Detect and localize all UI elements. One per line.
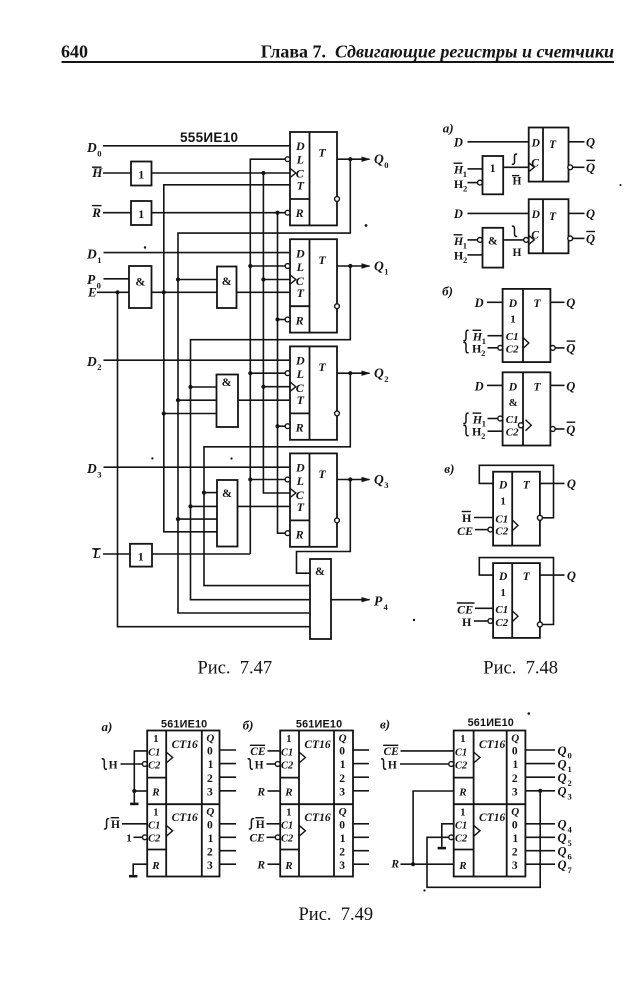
wire Q output (V2) bbox=[540, 574, 565, 576]
svg-text:Q: Q bbox=[566, 379, 575, 393]
svg-text:Рис. 7.49: Рис. 7.49 bbox=[299, 905, 374, 925]
svg-text:C1: C1 bbox=[455, 747, 467, 758]
svg-text:D: D bbox=[295, 139, 305, 153]
svg-text:Q: Q bbox=[339, 806, 347, 818]
svg-text:CT16: CT16 bbox=[479, 812, 505, 824]
svg-text:3: 3 bbox=[339, 786, 345, 798]
wire output Q2 (в) bbox=[525, 776, 555, 778]
svg-text:0: 0 bbox=[339, 819, 345, 831]
AND gate U1 (P0·E) bbox=[129, 266, 152, 308]
wire Q0 bus to U4 input bbox=[178, 518, 217, 520]
svg-text:1: 1 bbox=[482, 419, 486, 429]
pin label E bbox=[87, 284, 97, 299]
pin label CE (V1) bbox=[457, 524, 473, 538]
svg-text:1: 1 bbox=[500, 587, 506, 599]
wire output stub Q6 (а) bbox=[220, 850, 237, 852]
inverter gate 1 (clock) bbox=[131, 162, 152, 186]
svg-text:T: T bbox=[318, 253, 326, 267]
V CT16 label 2 bbox=[479, 812, 505, 824]
svg-text:C2: C2 bbox=[455, 760, 468, 771]
svg-text:а): а) bbox=[443, 120, 454, 135]
svg-text:D: D bbox=[86, 461, 97, 476]
wire Q̄ output (B1) bbox=[555, 347, 564, 349]
svg-text:D: D bbox=[453, 136, 463, 150]
B dynamic wedge 1 bbox=[299, 752, 305, 763]
svg-text:2: 2 bbox=[463, 255, 467, 265]
svg-text:а): а) bbox=[102, 719, 113, 734]
falling edge mark + label H (в1) bbox=[381, 759, 397, 771]
A dynamic wedge 2 bbox=[166, 825, 172, 836]
DD1 pin labels D L C T R, section T bbox=[295, 139, 327, 220]
svg-text:CE: CE bbox=[384, 746, 400, 758]
svg-text:5: 5 bbox=[568, 838, 572, 848]
svg-text:C1: C1 bbox=[506, 414, 519, 426]
wire D1 to DD2 pin D bbox=[104, 252, 291, 254]
svg-text:0: 0 bbox=[512, 819, 518, 831]
wire U4 output to DD4 pin T bbox=[238, 505, 291, 507]
DD3 R input bubble bbox=[285, 424, 290, 429]
svg-text:C: C bbox=[531, 229, 539, 241]
svg-text:Q: Q bbox=[566, 423, 575, 437]
wire H̄ to inverter input bbox=[103, 172, 131, 174]
wire R bus branch to DD3 bbox=[278, 425, 286, 427]
svg-text:6: 6 bbox=[568, 851, 572, 861]
pin label Q̄ (A2) bbox=[586, 232, 595, 247]
wire Q3 feedback to U5 bbox=[297, 480, 351, 574]
wire Q3 output with arrow bbox=[337, 477, 371, 482]
pin label D (B2) bbox=[474, 379, 484, 393]
wire Q output (A1) bbox=[569, 141, 585, 143]
svg-text:0: 0 bbox=[512, 746, 518, 758]
svg-text:C2: C2 bbox=[148, 760, 161, 771]
wire P0 to AND gate 1 input bbox=[104, 278, 130, 280]
svg-text:1: 1 bbox=[460, 808, 465, 819]
wire Q output (A2) bbox=[569, 212, 585, 214]
svg-text:2: 2 bbox=[97, 362, 101, 372]
wire H̄ to C1 (б2) bbox=[267, 823, 281, 825]
svg-text:C2: C2 bbox=[506, 427, 519, 439]
wire output stub Q4 (а) bbox=[220, 823, 237, 825]
svg-text:CE: CE bbox=[457, 524, 473, 538]
svg-text:D: D bbox=[508, 298, 518, 310]
svg-text:C1: C1 bbox=[495, 513, 508, 525]
node: Q0 output junction bbox=[348, 157, 352, 161]
wire output stub Q5 (а) bbox=[220, 836, 237, 838]
pin label C̄E (б1) bbox=[250, 745, 266, 758]
C2 input bubble (в1) bbox=[449, 762, 454, 767]
V left column labels section 2 bbox=[455, 808, 468, 872]
logic-0 bar (а1) bbox=[130, 803, 138, 806]
svg-text:R: R bbox=[458, 860, 466, 872]
wire V2 feedback Q̄ to D bbox=[479, 558, 553, 625]
svg-text:Q: Q bbox=[586, 161, 595, 175]
svg-text:CT16: CT16 bbox=[172, 739, 198, 751]
A CT16 label 1 bbox=[172, 739, 198, 751]
pin label H̄1 (A1) bbox=[453, 162, 467, 178]
svg-text:D: D bbox=[295, 246, 305, 260]
gate input bubble (A1 H2) bbox=[478, 180, 483, 185]
svg-text:CT16: CT16 bbox=[304, 739, 330, 751]
C2 input bubble (б1) bbox=[275, 762, 280, 767]
pin label Q1 (в) bbox=[558, 757, 572, 774]
B left column labels section 2 bbox=[281, 808, 294, 872]
header rule bbox=[62, 61, 615, 63]
DD3 L input bubble bbox=[285, 371, 290, 376]
wire R̄ to inverter input bbox=[103, 212, 131, 214]
svg-text:T: T bbox=[297, 179, 305, 193]
rising edge mark (B1) bbox=[463, 330, 468, 340]
FF A2 C input bubble bbox=[524, 238, 529, 243]
wire U1 output (P line) bbox=[152, 291, 218, 293]
node: Q0 bus junction at U2 bbox=[176, 277, 180, 281]
svg-text:L: L bbox=[296, 474, 304, 488]
svg-text:D: D bbox=[474, 379, 484, 393]
svg-text:Q: Q bbox=[511, 732, 519, 744]
svg-text:Q: Q bbox=[558, 785, 567, 799]
pin label H2 (A2) bbox=[454, 249, 467, 265]
node: Q0 bus junction at U3 bbox=[176, 398, 180, 402]
sub-figure label б) bbox=[442, 283, 453, 298]
svg-text:1: 1 bbox=[490, 163, 496, 175]
svg-text:C2: C2 bbox=[281, 760, 294, 771]
svg-text:H: H bbox=[109, 759, 118, 771]
svg-text:3: 3 bbox=[339, 860, 345, 872]
svg-text:D: D bbox=[295, 461, 305, 475]
svg-text:Q: Q bbox=[586, 207, 595, 221]
running head: Глава 7. Сдвигающие регистры и счетчики bbox=[261, 42, 614, 62]
svg-text:R: R bbox=[91, 205, 101, 220]
wire output stub Q6 (б) bbox=[353, 850, 369, 852]
A dynamic wedge 1 bbox=[166, 752, 172, 763]
wire L bus branch to DD3 bbox=[250, 372, 285, 374]
svg-text:R: R bbox=[256, 860, 265, 872]
B dynamic wedge 2 bbox=[299, 825, 305, 836]
svg-text:1: 1 bbox=[463, 169, 467, 179]
falling edge mark + label H (а) bbox=[102, 759, 118, 771]
svg-text:H: H bbox=[388, 759, 397, 771]
node: Q1 bus junction at U3 bbox=[188, 385, 192, 389]
svg-text:Q: Q bbox=[566, 296, 575, 310]
caption Рис. 7.48 bbox=[483, 658, 558, 678]
svg-text:Q: Q bbox=[558, 757, 567, 771]
pin label R̄ (reset) bbox=[91, 205, 101, 220]
flip-flop DD1 (D/T latch) box bbox=[290, 132, 337, 225]
wire D3 to DD4 pin D bbox=[104, 466, 291, 468]
wire 1 to C2 bubble (а2) bbox=[134, 836, 143, 838]
FF V1 labels D 1 C1 C2 / T bbox=[495, 480, 530, 538]
svg-text:T: T bbox=[318, 360, 326, 374]
wire output stub Q0 (б) bbox=[353, 749, 369, 751]
svg-text:1: 1 bbox=[482, 336, 486, 346]
pin label CE (б2) bbox=[250, 833, 266, 845]
DD1 R input bubble bbox=[285, 210, 290, 215]
pin label D (A1) bbox=[453, 136, 463, 150]
pin label Q0 bbox=[374, 152, 389, 170]
svg-text:C2: C2 bbox=[495, 526, 508, 538]
IC label 555ИЕ10 bbox=[180, 130, 238, 145]
pin label D3 bbox=[86, 461, 102, 479]
wire Q̄ output (A1) bbox=[573, 166, 585, 168]
wire inverter out to L bus bbox=[152, 553, 250, 555]
FF A1 box bbox=[529, 128, 569, 182]
C2 input bubble (а2) bbox=[142, 835, 147, 840]
V output column labels 1 bbox=[511, 732, 519, 798]
svg-text:T: T bbox=[318, 467, 326, 481]
label H̄ on clock wire (A1) bbox=[512, 176, 522, 188]
node: E bus tap bbox=[115, 290, 119, 294]
label H on clock wire (A2) bbox=[513, 247, 522, 259]
wire output Q4 (в) bbox=[525, 823, 555, 825]
DD1 inverted output bubble bbox=[335, 197, 340, 202]
DD2 inverted output bubble bbox=[335, 304, 340, 309]
IC label 561ИЕ10 (а) bbox=[161, 719, 207, 731]
AND gate U4 (stage 4 carry) bbox=[217, 480, 238, 547]
falling edge mark (B1) bbox=[463, 342, 468, 352]
falling edge mark (A2) bbox=[512, 226, 517, 236]
FF B1 box bbox=[503, 289, 551, 362]
DD4 R input bubble bbox=[285, 531, 290, 536]
C2 input bubble (B1) bbox=[498, 345, 503, 350]
wire H̄1 to gate bbox=[468, 168, 483, 170]
svg-text:C1: C1 bbox=[148, 821, 160, 832]
svg-text:C2: C2 bbox=[281, 834, 294, 845]
svg-text:D: D bbox=[531, 209, 541, 221]
wire C̄E to C1 (в1) bbox=[401, 750, 454, 752]
svg-text:&: & bbox=[135, 275, 145, 289]
pin label H̄1 (B1) bbox=[472, 330, 486, 346]
node: Q3 feedback junction (в) bbox=[538, 789, 542, 793]
gate 1 (A1 clock) bbox=[483, 156, 504, 194]
svg-text:в): в) bbox=[444, 461, 454, 476]
pin label C̄E (в1) bbox=[383, 745, 399, 758]
FF B1 labels D 1 C1 C2 / T bbox=[506, 298, 542, 356]
svg-text:R: R bbox=[390, 859, 399, 871]
wire D to FF B2 bbox=[487, 384, 503, 386]
pin label H2 (B1) bbox=[472, 342, 485, 358]
wire output stub Q7 (а) bbox=[220, 863, 237, 865]
svg-text:1: 1 bbox=[208, 759, 214, 771]
svg-text:R: R bbox=[284, 860, 292, 872]
svg-text:&: & bbox=[222, 375, 232, 389]
caption Рис. 7.47 bbox=[198, 658, 273, 678]
inverter gate 3 (load) bbox=[130, 544, 152, 567]
wire U3 output to DD3 pin T bbox=[238, 399, 290, 401]
IC label 561ИЕ10 (б) bbox=[296, 719, 342, 731]
svg-text:1: 1 bbox=[513, 759, 519, 771]
wire output stub Q2 (а) bbox=[220, 776, 237, 778]
svg-text:&: & bbox=[222, 486, 232, 500]
DD2 pin labels D L C T R, section T bbox=[295, 246, 327, 327]
FF B2 labels D & C1 C2 / T bbox=[506, 381, 542, 438]
C2 input bubble (б2) bbox=[275, 835, 280, 840]
svg-text:1: 1 bbox=[460, 734, 465, 745]
svg-text:D: D bbox=[474, 296, 484, 310]
wire R bus branch to DD2 bbox=[278, 319, 286, 321]
svg-text:0: 0 bbox=[568, 751, 572, 761]
node: L bus junction DD2 bbox=[248, 264, 252, 268]
svg-text:2: 2 bbox=[512, 773, 518, 785]
wire CE to C2 bubble (V1) bbox=[475, 529, 488, 531]
svg-text:L: L bbox=[296, 367, 304, 381]
gate input bubble (A2 H̄1) bbox=[478, 238, 483, 243]
wire H to C2 bubble (в1) bbox=[400, 763, 449, 765]
wire CE to C2 bubble (б2) bbox=[267, 836, 276, 838]
svg-text:2: 2 bbox=[339, 773, 345, 785]
svg-text:1: 1 bbox=[153, 734, 158, 745]
pin label Q2 (в) bbox=[558, 771, 572, 788]
node: Q0 bus junction at U4 bbox=[176, 517, 180, 521]
svg-text:Рис. 7.48: Рис. 7.48 bbox=[483, 658, 558, 678]
svg-text:2: 2 bbox=[463, 183, 467, 193]
svg-text:T: T bbox=[534, 381, 542, 393]
svg-text:L: L bbox=[296, 260, 304, 274]
FF B2 wedge bubble on divider bbox=[518, 423, 523, 428]
wire H̄1 to C1 bubble bbox=[488, 418, 498, 420]
svg-text:561ИЕ10: 561ИЕ10 bbox=[161, 719, 207, 731]
pin label Q (A1) bbox=[586, 136, 595, 150]
rising edge mark + label H̄ (а) bbox=[104, 818, 120, 831]
pin label H (V2) bbox=[462, 615, 472, 629]
svg-text:Рис. 7.47: Рис. 7.47 bbox=[198, 658, 273, 678]
pin label Q4 (в) bbox=[558, 818, 573, 835]
wire output stub Q0 (а) bbox=[220, 749, 237, 751]
sub-figure label а) bbox=[443, 120, 454, 135]
wire D to FF A2 bbox=[468, 212, 529, 214]
svg-text:3: 3 bbox=[207, 786, 213, 798]
wire D2 to DD3 pin D bbox=[104, 359, 291, 361]
svg-text:H: H bbox=[462, 615, 472, 629]
wire R input (б1) bbox=[268, 790, 281, 792]
wire V1 feedback Q̄ to D bbox=[479, 465, 553, 518]
C1 input bubble (B2) bbox=[498, 416, 503, 421]
pin label Q7 (в) bbox=[558, 858, 573, 875]
svg-text:0: 0 bbox=[97, 281, 101, 291]
pin label H̄ (clock) bbox=[91, 165, 103, 180]
wire C bus (clock to all C inputs) bbox=[263, 173, 290, 493]
sub-figure label б) (7.49) bbox=[243, 718, 254, 733]
wire C̄E to C1 (б1) bbox=[268, 750, 281, 752]
svg-text:D: D bbox=[86, 354, 97, 369]
wire Q2 bus to U4 input bbox=[204, 492, 217, 494]
pin label D0 bbox=[86, 140, 102, 158]
pin label Q0 (в) bbox=[558, 744, 572, 761]
wire L bus (load to all L inputs) bbox=[250, 159, 285, 554]
wire Q1 feedback to U5 bbox=[191, 266, 351, 600]
wire C1 of counter2 tied to 0 (в) bbox=[442, 824, 454, 847]
svg-text:T: T bbox=[297, 393, 305, 407]
svg-text:2: 2 bbox=[207, 847, 213, 859]
svg-text:T: T bbox=[297, 500, 305, 514]
wire output stub Q3 (б) bbox=[353, 790, 369, 792]
B output column labels 2 bbox=[339, 806, 347, 872]
svg-text:б): б) bbox=[442, 283, 453, 298]
AND gate U3 (stage 3 carry) bbox=[217, 375, 239, 428]
pin label D1 bbox=[86, 247, 102, 265]
falling edge mark (B2) bbox=[463, 425, 468, 435]
output bubble Q̄ (B1) bbox=[550, 346, 555, 351]
logic-0 bar (а2) bbox=[129, 875, 137, 878]
DD2 R input bubble bbox=[285, 317, 290, 322]
wire Q̄ output (A2) bbox=[573, 237, 585, 239]
wire H̄1 to C1 bbox=[488, 335, 503, 337]
rising edge mark (B2) bbox=[463, 413, 468, 423]
wire D to FF B1 bbox=[487, 301, 503, 303]
pin label H2 (B2) bbox=[472, 425, 485, 441]
wire H to C2 bubble (а) bbox=[121, 763, 143, 765]
pin label Q (B2) bbox=[566, 379, 575, 393]
DD1 L input bubble bbox=[285, 157, 290, 162]
svg-text:2: 2 bbox=[481, 431, 485, 441]
wire Q output (V1) bbox=[540, 482, 565, 484]
svg-text:H: H bbox=[111, 819, 120, 831]
rising edge mark + label H̄ (б2) bbox=[249, 818, 265, 831]
speckle marks bbox=[144, 184, 622, 892]
FF A2 C dynamic wedge bbox=[529, 235, 535, 244]
svg-text:CT16: CT16 bbox=[304, 812, 330, 824]
logic-0 bar (в) bbox=[438, 847, 446, 850]
svg-text:R: R bbox=[284, 787, 292, 799]
svg-text:R: R bbox=[295, 206, 304, 220]
wire R bus (reset to all R inputs) bbox=[278, 213, 286, 534]
V CT16 label 1 bbox=[479, 739, 505, 751]
C2 input bubble (а1) bbox=[142, 762, 147, 767]
svg-text:C: C bbox=[531, 157, 539, 169]
DD3 inverted output bubble bbox=[335, 411, 340, 416]
svg-text:D: D bbox=[86, 247, 97, 262]
wire C bus branch to DD3 bbox=[263, 386, 290, 388]
counter block A (two CT16 sections) box bbox=[147, 731, 219, 877]
node: C bus junction DD2 bbox=[261, 277, 265, 281]
node: R bus tap on reset line bbox=[275, 211, 279, 215]
gate & (A2 clock) bbox=[483, 228, 504, 268]
FF B2 dynamic wedge on divider bbox=[526, 420, 532, 431]
svg-text:1: 1 bbox=[138, 168, 144, 182]
wire Q0 bus to U3 input bbox=[178, 399, 217, 401]
svg-text:E: E bbox=[87, 284, 97, 299]
pin label Q2 bbox=[374, 366, 389, 384]
svg-text:Q: Q bbox=[374, 259, 384, 274]
svg-text:в): в) bbox=[380, 717, 390, 732]
DD4 C dynamic input wedge bbox=[290, 488, 296, 497]
wire H̄ to C1 (V1) bbox=[474, 517, 493, 519]
flip-flop DD4 (D/T latch) box bbox=[290, 453, 337, 546]
V dynamic wedge 1 bbox=[474, 752, 480, 763]
svg-text:R: R bbox=[295, 313, 304, 327]
svg-text:1: 1 bbox=[208, 833, 214, 845]
wire Q0 bus to U2 input bbox=[178, 279, 217, 281]
svg-text:C1: C1 bbox=[506, 331, 519, 343]
node: L bus junction DD3 bbox=[248, 371, 252, 375]
FF V2 dynamic wedge on divider bbox=[512, 611, 518, 622]
FF V1 box bbox=[493, 472, 540, 546]
svg-text:Q: Q bbox=[586, 232, 595, 246]
svg-text:1: 1 bbox=[138, 207, 144, 221]
svg-text:&: & bbox=[315, 564, 325, 578]
svg-text:3: 3 bbox=[512, 786, 518, 798]
FF B2 box bbox=[503, 372, 551, 445]
A output column labels 2 bbox=[206, 806, 214, 872]
wire Q0 output with arrow bbox=[337, 157, 371, 162]
svg-text:C1: C1 bbox=[495, 604, 508, 616]
DD3 C dynamic input wedge bbox=[290, 382, 296, 391]
node: Q1 bus junction at U4 bbox=[188, 504, 192, 508]
svg-text:0: 0 bbox=[207, 746, 213, 758]
svg-text:H: H bbox=[513, 247, 522, 259]
svg-text:&: & bbox=[488, 235, 498, 247]
svg-text:2: 2 bbox=[481, 348, 485, 358]
V left column labels section 1 bbox=[455, 734, 468, 799]
svg-text:0: 0 bbox=[97, 148, 101, 158]
